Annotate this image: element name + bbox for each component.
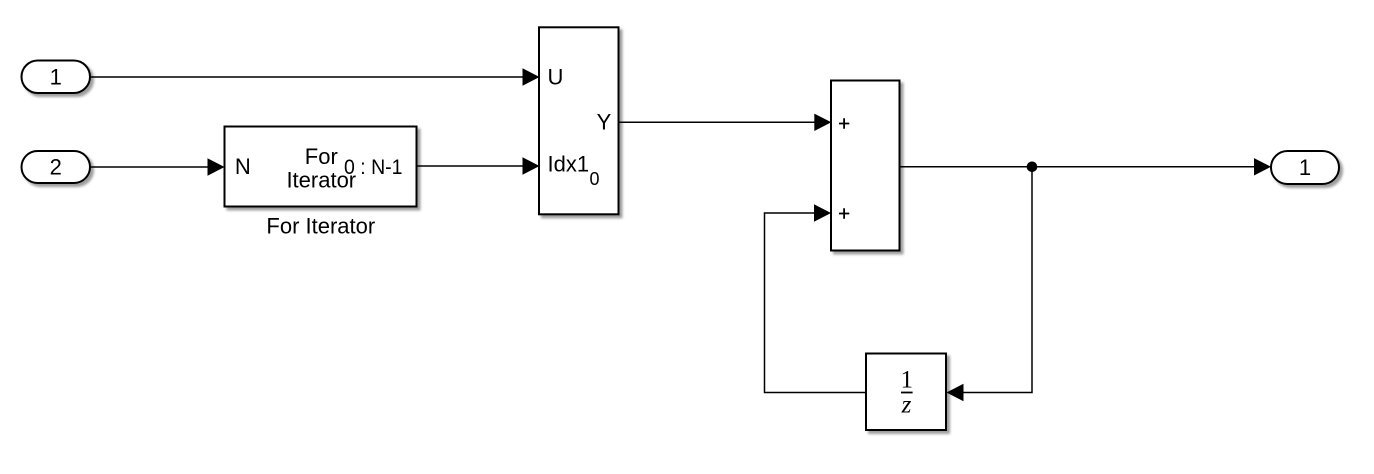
wire sum output to outport <box>900 158 1272 175</box>
svg-text:1: 1 <box>1299 155 1311 180</box>
wire For Iterator to Idx1 input <box>417 157 540 174</box>
svg-text:N: N <box>235 154 251 179</box>
inport 2 <box>22 151 91 183</box>
svg-text:z: z <box>901 392 912 419</box>
svg-text:0: 0 <box>590 169 600 189</box>
sum block <box>831 81 900 251</box>
assignment block U Y Idx1 <box>539 27 619 214</box>
For Iterator block <box>225 127 417 207</box>
wire Y output to sum first input <box>619 114 832 131</box>
svg-text:For Iterator: For Iterator <box>266 214 375 239</box>
wire unit delay output to sum second input <box>765 204 867 392</box>
svg-text:0 : N-1: 0 : N-1 <box>344 156 403 179</box>
junction dot <box>1027 162 1038 173</box>
wire junction down to unit delay input <box>947 167 1033 401</box>
outport 1 <box>1271 151 1339 184</box>
svg-text:2: 2 <box>50 155 62 180</box>
inport 1 <box>22 61 91 94</box>
wire inport1 to U input <box>90 68 540 85</box>
svg-text:U: U <box>548 65 564 90</box>
svg-text:For: For <box>305 144 338 169</box>
wire inport2 to For Iterator N input <box>90 158 225 175</box>
svg-text:Idx1: Idx1 <box>548 152 590 177</box>
svg-text:Y: Y <box>597 110 612 135</box>
svg-text:1: 1 <box>50 65 62 90</box>
unit delay block 1/z <box>866 354 946 431</box>
svg-text:1: 1 <box>901 367 914 394</box>
